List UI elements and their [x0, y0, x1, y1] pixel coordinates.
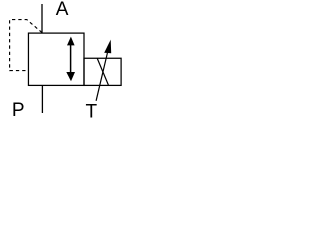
svg-text:P: P — [12, 100, 25, 121]
svg-text:T: T — [86, 101, 98, 122]
svg-text:A: A — [56, 0, 69, 20]
